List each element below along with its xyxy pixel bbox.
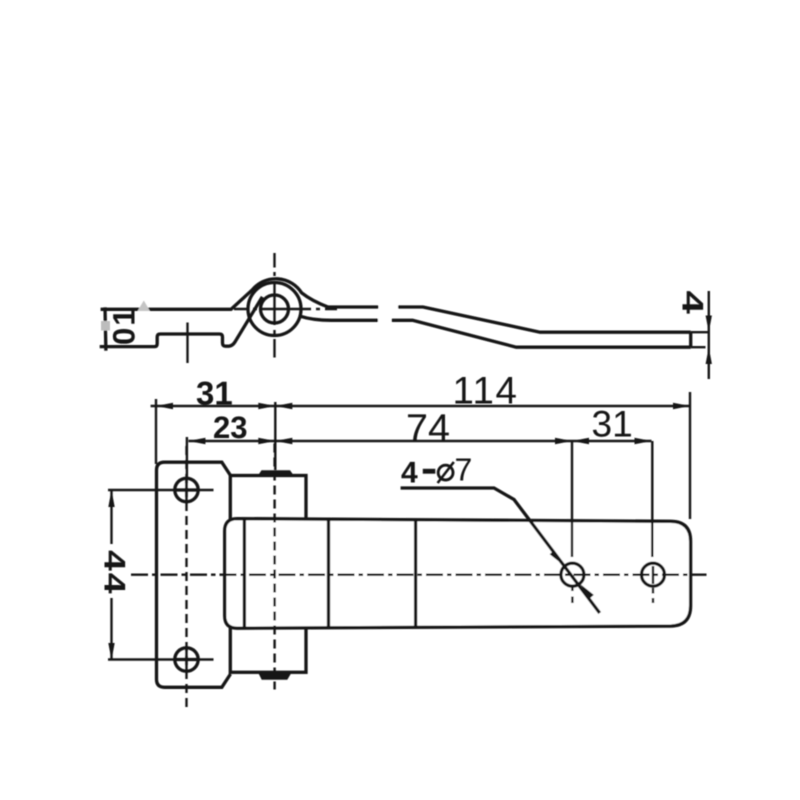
left leaf bottom edge with recess step (100, 297, 263, 347)
strap hole right bottom tick (652, 566, 654, 603)
extension line at strap right end (689, 392, 691, 519)
strap hole left bottom tick (571, 585, 573, 604)
knuckle inner circle (pin) (261, 295, 289, 323)
plate hole bottom (175, 648, 198, 671)
knuckle horizontal centerline (234, 308, 337, 310)
pin end cap bottom (filled) (258, 672, 292, 679)
left leaf top edge and wrap-over arc into strap top line (101, 279, 691, 332)
strap bottom line sloping into knuckle (301, 316, 691, 347)
extension line at plate left edge (155, 399, 157, 464)
svg-text:01: 01 (107, 307, 142, 345)
dimension line 31/114 (151, 405, 690, 407)
extension line at hole 652 (651, 441, 653, 557)
arrow up to strap bottom (706, 347, 712, 364)
dimension 4 line at right (708, 291, 710, 379)
strap end cap (689, 332, 692, 347)
arrow down tip at 660 (108, 643, 114, 660)
svg-text:31: 31 (196, 375, 233, 412)
white patch artifacts on strap (379, 302, 399, 314)
arrow left tip at 156 (156, 403, 173, 409)
strap bend line 1 (327, 519, 330, 628)
dimension 44 vertical line (110, 490, 112, 660)
pin vertical dashed centerline (273, 444, 275, 690)
arrows back to back at pin center (lower) (258, 438, 275, 444)
plate hole top (175, 478, 198, 501)
svg-text:44: 44 (98, 550, 131, 595)
svg-text:114: 114 (453, 370, 519, 413)
strap hole left (4-Ø7) (561, 563, 584, 586)
svg-text:74: 74 (406, 407, 450, 451)
arrow down to strap top (706, 316, 712, 333)
knuckle housing rectangle (230, 476, 306, 673)
extension line at first hole (186, 437, 188, 479)
arrow up tip at 490 (108, 490, 114, 507)
svg-text:31: 31 (592, 404, 633, 445)
screw hole center mark in side view (186, 323, 188, 364)
arrows back to back at hole 572 (555, 438, 572, 444)
strap plan outline (covers housing edges) (225, 519, 691, 629)
grey watermark remnant triangle on top edge (138, 301, 151, 312)
svg-text:23: 23 (213, 410, 247, 445)
leader arrowhead at hole (550, 550, 563, 564)
grey watermark remnant square on left edge (101, 321, 110, 331)
strap hole right (642, 563, 665, 586)
knuckle vertical centerline (273, 253, 275, 358)
plate hole top cross (108, 477, 214, 504)
arrow right tip at 690 (673, 403, 690, 409)
svg-text:7: 7 (455, 452, 473, 488)
extension line at hole 572 (571, 441, 573, 557)
left plate left end edge (103, 307, 107, 350)
pin end cap top (filled) (258, 470, 294, 475)
thin extensions of strap lines to dimension line (691, 332, 709, 347)
extension line at pin center (274, 402, 276, 470)
arrows back to back at pin center (258, 403, 275, 409)
mounting plate outline (157, 462, 231, 687)
strap bend line 2 (414, 519, 417, 628)
arrow right tip at 651.5 (635, 438, 652, 444)
knuckle outer circle (248, 283, 301, 336)
main horizontal centerline (131, 574, 707, 576)
dimension line 23/74/31 (188, 440, 651, 442)
svg-text:4: 4 (676, 291, 709, 315)
plate holes vertical dashed centerline (185, 446, 187, 709)
plate hole bottom cross (108, 647, 214, 673)
svg-text:4: 4 (401, 457, 418, 490)
arrow left tip at 188.4 (188, 438, 205, 444)
strap curl tangent line (243, 519, 246, 628)
leader underline (401, 488, 600, 613)
